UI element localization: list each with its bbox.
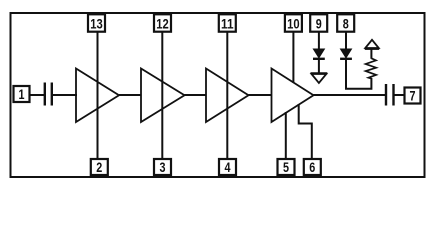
wire C2 to pin7 xyxy=(394,94,407,96)
wire A4 to pin6 (stepped) xyxy=(299,104,312,160)
wire pin12 to pin3 (bias line through A2) xyxy=(161,31,163,160)
svg-text:7: 7 xyxy=(410,89,416,105)
pin 3 xyxy=(154,159,171,176)
wire D1 to down-arrow xyxy=(318,59,320,73)
wire pin10 to amp A4 top edge xyxy=(292,31,294,83)
wire pin13 to pin2 (bias line through A1) xyxy=(97,31,99,160)
svg-text:9: 9 xyxy=(316,16,322,32)
svg-text:1: 1 xyxy=(19,87,25,103)
outer border frame of IC xyxy=(11,13,425,177)
svg-text:10: 10 xyxy=(287,16,300,32)
op-amp A4 (output stage) xyxy=(272,69,314,123)
pin 6 xyxy=(304,159,321,176)
diode D2 (pin8 branch) xyxy=(340,49,352,59)
svg-text:5: 5 xyxy=(283,160,289,176)
wire A4 to pin5 xyxy=(285,112,287,160)
svg-text:13: 13 xyxy=(90,16,103,32)
op-amp A1 (gain stage 1) xyxy=(76,69,119,123)
wire pin9 to diode D1 xyxy=(318,31,320,50)
wire A4 output to C2 xyxy=(314,94,386,96)
pin 8 xyxy=(337,14,354,32)
svg-text:4: 4 xyxy=(225,160,231,176)
pin 7 xyxy=(405,88,421,105)
svg-text:8: 8 xyxy=(343,16,349,32)
op-amp A2 (gain stage 2) xyxy=(141,69,185,123)
wire A1 to A2 xyxy=(119,94,141,96)
resistor R1 xyxy=(366,58,377,78)
open arrow down (pin9 branch termination) xyxy=(311,73,328,83)
open arrow up (above R1) xyxy=(365,40,379,49)
capacitor C1 (input DC block) xyxy=(45,83,52,106)
wire R1 to up-arrow xyxy=(370,49,372,59)
capacitor C2 (output DC block) xyxy=(386,84,394,106)
diode D1 (pin9 branch) xyxy=(313,49,325,59)
pin 5 xyxy=(278,159,295,176)
svg-text:3: 3 xyxy=(160,160,166,176)
svg-text:2: 2 xyxy=(96,160,102,176)
wire C1 to amp A1 xyxy=(52,94,77,96)
pin 12 xyxy=(154,14,171,32)
wire D2 to resistor R1 (U shape) xyxy=(346,59,371,89)
pin 13 xyxy=(88,14,105,32)
op-amp A3 (gain stage 3) xyxy=(206,69,249,123)
pin 4 xyxy=(219,159,236,176)
pin 11 xyxy=(219,14,236,32)
svg-text:12: 12 xyxy=(156,16,169,32)
svg-text:6: 6 xyxy=(309,160,315,176)
pin 9 xyxy=(310,14,327,32)
wire pin11 to pin4 (bias line through A3) xyxy=(226,31,228,160)
wire input pin1 to C1 xyxy=(29,94,45,96)
pin 2 xyxy=(91,159,108,176)
pin 1 xyxy=(14,86,30,103)
pin 10 xyxy=(285,14,302,32)
wire A2 to A3 xyxy=(185,94,207,96)
svg-text:11: 11 xyxy=(221,16,234,32)
wire pin8 to diode D2 xyxy=(345,31,347,50)
wire A3 to A4 xyxy=(249,94,272,96)
